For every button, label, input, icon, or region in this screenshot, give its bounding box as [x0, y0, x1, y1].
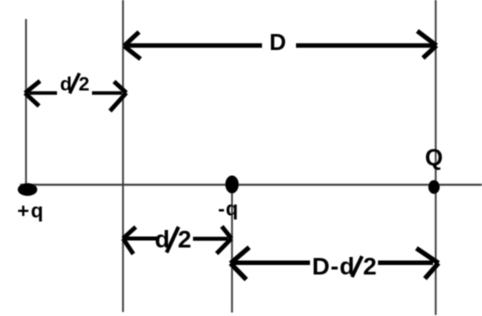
- svg-text:2: 2: [363, 254, 377, 281]
- svg-text:+q: +q: [17, 199, 45, 222]
- svg-text:D-d: D-d: [312, 254, 355, 281]
- svg-text:-q: -q: [218, 198, 239, 221]
- svg-text:Q: Q: [425, 144, 443, 170]
- svg-text:D: D: [269, 29, 286, 55]
- svg-text:2: 2: [178, 226, 192, 253]
- svg-text:2: 2: [79, 74, 90, 96]
